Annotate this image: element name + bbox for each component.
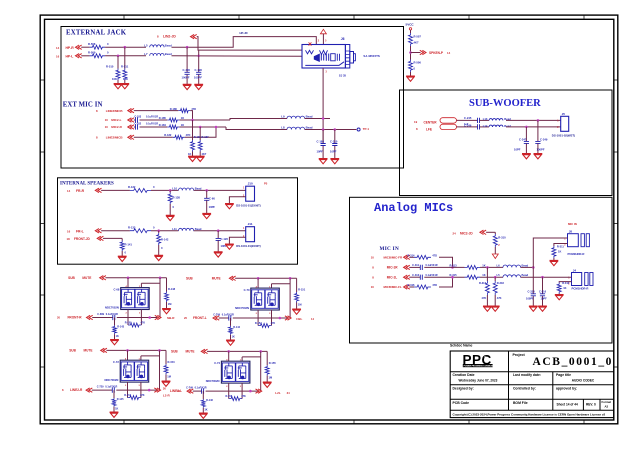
- svg-text:Analog MICs: Analog MICs: [374, 201, 453, 215]
- capacitor C316 10PF: [539, 277, 547, 306]
- resistor R133 0: [101, 225, 155, 232]
- svg-text:Bead: Bead: [306, 115, 313, 119]
- svg-text:1K: 1K: [563, 286, 566, 290]
- svg-text:R-133: R-133: [128, 225, 136, 229]
- svg-text:SJ-43515TS: SJ-43515TS: [363, 54, 380, 58]
- wire gate feeds: [127, 278, 129, 288]
- svg-text:1M: 1M: [167, 374, 171, 378]
- resistor R142 to ground: [157, 231, 169, 255]
- svg-text:L2-R: L2-R: [163, 393, 171, 397]
- svg-text:R-313: R-313: [450, 263, 458, 267]
- ground for R511: [120, 84, 129, 89]
- resistor R-154 47K gate-source: [124, 390, 144, 400]
- resistor R-153 1M: [164, 350, 175, 381]
- connector J5: [552, 112, 575, 138]
- capacitor C60 10PF: [204, 190, 215, 213]
- resistor R313 1K: [424, 263, 485, 269]
- ground R317: [483, 306, 492, 311]
- svg-text:R-184: R-184: [159, 123, 167, 127]
- dual MOSFET Q NDC7002N: [105, 357, 149, 387]
- svg-text:Wednesday June 07, 2023: Wednesday June 07, 2023: [459, 379, 498, 383]
- svg-text:100PF: 100PF: [526, 296, 534, 300]
- resistor R508 0: [88, 42, 109, 49]
- svg-text:C-74: C-74: [214, 361, 220, 365]
- connector J8: [564, 230, 589, 256]
- ground for R510: [114, 84, 123, 89]
- ground input resistor: [226, 340, 235, 345]
- wire row3 to J4: [521, 276, 572, 278]
- svg-text:HP-JD: HP-JD: [240, 31, 248, 35]
- svg-text:R-141: R-141: [125, 243, 133, 247]
- svg-text:R-148: R-148: [168, 287, 176, 291]
- hierarchical label MIC-1R: [372, 265, 410, 269]
- svg-text:C-406: C-406: [183, 68, 191, 72]
- svg-text:SJ 35: SJ 35: [339, 73, 347, 77]
- svg-text:R-314: R-314: [407, 253, 415, 257]
- svg-text:1M: 1M: [168, 302, 172, 306]
- hierarchical label SPKEN-P: [411, 50, 451, 55]
- svg-text:1M: 1M: [298, 302, 302, 306]
- INTERNAL SPEAKERS section box: [58, 178, 298, 264]
- resistor R511 10K to ground: [121, 47, 129, 83]
- svg-text:PCM1HDR-R: PCM1HDR-R: [572, 286, 589, 290]
- junction row1: [124, 46, 127, 49]
- svg-text:R-150: R-150: [125, 321, 132, 324]
- svg-text:1K: 1K: [204, 409, 207, 412]
- svg-text:100PF: 100PF: [182, 75, 190, 79]
- svg-text:L11: L11: [172, 227, 177, 231]
- svg-text:10: 10: [371, 285, 375, 289]
- ground input resistor: [110, 412, 119, 417]
- svg-text:47K: 47K: [271, 322, 276, 325]
- svg-text:1K: 1K: [188, 152, 191, 156]
- svg-text:SUB: SUB: [186, 277, 193, 281]
- svg-text:R-506: R-506: [414, 61, 422, 65]
- ground C247: [522, 154, 531, 159]
- wires MOSFET source/drain to audio row: [127, 382, 129, 390]
- svg-text:100PF: 100PF: [194, 75, 202, 79]
- svg-text:10PF: 10PF: [209, 205, 216, 209]
- svg-text:Designed by:: Designed by:: [453, 386, 474, 390]
- resistor R318 47K to ground: [493, 277, 504, 306]
- power symbol at jack: [320, 29, 326, 44]
- capacitor C311 series: [409, 263, 437, 270]
- capacitor C247 10PF: [514, 127, 529, 153]
- svg-text:SUB: SUB: [171, 350, 178, 354]
- hierarchical label MIC2-JD: [453, 230, 487, 235]
- resistor R-155 1M: [265, 351, 276, 382]
- svg-text:10: 10: [371, 256, 375, 260]
- resistor R-148 1M: [165, 278, 176, 309]
- svg-text:NDC7002N: NDC7002N: [105, 305, 119, 309]
- ground R187: [196, 156, 205, 161]
- svg-text:0.1uF/X1R: 0.1uF/X1R: [146, 123, 158, 126]
- svg-text:20: 20: [184, 316, 188, 320]
- svg-text:HP-R: HP-R: [66, 46, 75, 50]
- svg-text:LIN2-JD: LIN2-JD: [163, 34, 176, 38]
- svg-text:0.1uF/X1R: 0.1uF/X1R: [426, 274, 438, 277]
- output hierarchical label: [256, 389, 291, 395]
- ground at J11 pin2: [225, 237, 246, 249]
- svg-text:MICB/MIC-FR: MICB/MIC-FR: [384, 256, 403, 260]
- ground C210: [330, 159, 339, 164]
- power label 5VCC: [406, 22, 415, 33]
- svg-text:R-156: R-156: [226, 395, 233, 398]
- svg-text:C-60: C-60: [209, 197, 215, 201]
- ground C126: [214, 252, 223, 257]
- wire row B right: [179, 119, 230, 121]
- svg-text:Copyright (C) 2023-2024,Power: Copyright (C) 2023-2024,Power Progress C…: [453, 412, 606, 416]
- hierarchical label MICB/MIC-FR: [371, 255, 410, 259]
- resistor R-150 47K gate-source: [125, 318, 145, 328]
- svg-text:L14: L14: [483, 124, 488, 128]
- svg-text:10PF: 10PF: [317, 150, 324, 154]
- svg-text:approved by:: approved by:: [556, 386, 577, 390]
- sheet pin CENTER: [414, 118, 457, 125]
- svg-text:R-509: R-509: [88, 51, 96, 55]
- wire row B to caps: [305, 118, 330, 120]
- wire row C to test point: [305, 129, 357, 131]
- svg-text:EXTERNAL JACK: EXTERNAL JACK: [66, 30, 127, 37]
- inductor L9 Bead: [281, 115, 312, 119]
- svg-text:1K: 1K: [116, 335, 119, 338]
- svg-text:24: 24: [453, 232, 457, 236]
- svg-text:L6: L6: [497, 263, 501, 267]
- svg-text:16: 16: [67, 230, 71, 234]
- svg-text:0.1uF/X1R: 0.1uF/X1R: [146, 116, 158, 119]
- wire mic row B to beads: [230, 119, 287, 121]
- svg-text:FR-R: FR-R: [76, 189, 85, 193]
- svg-text:1K: 1K: [482, 263, 485, 267]
- svg-text:R-132: R-132: [128, 185, 136, 189]
- wire HP-L to jack: [105, 55, 146, 57]
- hierarchical label MIC-1L: [372, 275, 410, 279]
- svg-text:R-146: R-146: [206, 399, 213, 402]
- svg-text:AUDIO CODEC: AUDIO CODEC: [572, 379, 595, 383]
- resistor R-145 1K to ground: [112, 390, 124, 412]
- svg-text:FRONT-JD: FRONT-JD: [74, 237, 91, 241]
- svg-text:0.1uF/X1R: 0.1uF/X1R: [222, 313, 234, 316]
- svg-text:30: 30: [163, 387, 167, 391]
- wire row3 to bead: [480, 276, 503, 278]
- ground mute resistor: [263, 382, 272, 387]
- svg-text:1K: 1K: [181, 116, 184, 120]
- svg-text:Bead: Bead: [522, 273, 529, 277]
- ground input resistor: [110, 340, 119, 345]
- capacitor C184 10PF: [317, 130, 326, 159]
- svg-text:LINE2/MICB: LINE2/MICB: [106, 136, 123, 140]
- svg-text:INTERNAL SPEAKERS: INTERNAL SPEAKERS: [60, 182, 114, 187]
- svg-text:R-317: R-317: [479, 281, 487, 285]
- EXTERNAL JACK / EXT MIC IN section box: [61, 27, 404, 169]
- sheet pin 16 FR-L: [67, 229, 102, 234]
- output hierarchical label: [155, 315, 175, 320]
- resistor R-143 1K to ground: [113, 318, 125, 340]
- svg-text:MUTE: MUTE: [186, 350, 195, 354]
- wire row2 to bead: [480, 266, 503, 268]
- logo PPC: [463, 353, 497, 368]
- wire HP-R rises over to jack top pin: [105, 46, 146, 48]
- svg-text:R-152: R-152: [255, 322, 262, 325]
- svg-text:ACB_0001_0: ACB_0001_0: [533, 356, 614, 368]
- wire gate feeds: [228, 351, 230, 361]
- svg-text:C-311: C-311: [412, 263, 419, 267]
- svg-text:LFE: LFE: [426, 127, 432, 131]
- svg-text:Controlled by:: Controlled by:: [513, 386, 536, 390]
- resistor R317 47K to ground: [479, 267, 489, 305]
- resistor R510 10K to ground: [106, 56, 120, 83]
- ground C184: [319, 159, 328, 164]
- svg-text:L13: L13: [483, 117, 488, 121]
- resistor R138 to ground: [168, 190, 180, 215]
- svg-text:C-183: C-183: [134, 116, 141, 119]
- svg-text:R-151: R-151: [298, 288, 306, 292]
- svg-text:R-310: R-310: [498, 236, 506, 240]
- svg-text:C-72: C-72: [113, 360, 119, 364]
- svg-text:NDC7002N: NDC7002N: [105, 378, 119, 382]
- svg-text:10: 10: [105, 125, 109, 129]
- resistor R312 1K at J4: [557, 281, 571, 295]
- ground mute resistor: [162, 309, 171, 314]
- svg-text:R-316: R-316: [407, 283, 415, 287]
- svg-text:47K: 47K: [497, 296, 502, 300]
- svg-text:Sheet 14 of 44: Sheet 14 of 44: [557, 402, 578, 406]
- svg-text:C-196: C-196: [195, 68, 203, 72]
- svg-text:PCM2HDR-R: PCM2HDR-R: [568, 252, 585, 256]
- hierarchical label LINE2/MICB row A: [96, 108, 134, 112]
- svg-text:20: 20: [57, 316, 61, 320]
- ground R318: [491, 306, 500, 311]
- dual MOSFET Q NDC7002N: [235, 285, 279, 315]
- ground for C196: [194, 84, 203, 89]
- sheet pin LFE: [416, 124, 457, 131]
- wire CENTER to J5: [506, 119, 561, 121]
- svg-text:C-182: C-182: [134, 123, 141, 126]
- hierarchical label MIC2-R: [105, 125, 134, 129]
- svg-text:R-186: R-186: [170, 107, 178, 111]
- svg-text:LINE2-R: LINE2-R: [70, 388, 83, 392]
- svg-text:18: 18: [67, 237, 71, 241]
- sheet pin LINE2-R: [62, 388, 92, 392]
- svg-text:L8: L8: [281, 126, 285, 130]
- svg-text:R-185: R-185: [159, 116, 167, 120]
- output hierarchical label: [285, 316, 315, 321]
- mute label SUB MUTE: [68, 276, 106, 280]
- svg-text:FBL: FBL: [296, 317, 302, 321]
- ground R188: [188, 156, 197, 161]
- svg-text:C-249: C-249: [540, 137, 548, 141]
- svg-text:R-144: R-144: [233, 326, 240, 329]
- ground input resistor: [199, 413, 208, 418]
- connector J4: [568, 268, 593, 290]
- wires MOSFET source/drain to audio row: [228, 383, 230, 391]
- inductor L7 Bead: [144, 52, 172, 56]
- svg-text:FRONT-R: FRONT-R: [68, 316, 83, 320]
- resistor R188 1K to ground: [188, 120, 201, 156]
- svg-text:C-709: C-709: [213, 313, 220, 316]
- resistor R311 1K at J8: [552, 244, 568, 261]
- svg-text:0.1uF/X1R: 0.1uF/X1R: [106, 313, 118, 316]
- resistor R314 47D: [407, 253, 437, 259]
- ground C60: [202, 213, 211, 218]
- svg-text:0.1uF/X1R: 0.1uF/X1R: [195, 387, 207, 390]
- wires MOSFET source/drain to audio row: [257, 310, 259, 318]
- svg-text:C-70: C-70: [244, 288, 250, 292]
- svg-text:J10: J10: [248, 182, 253, 186]
- inductor L11 Bead: [172, 227, 201, 231]
- svg-text:47D: 47D: [432, 253, 437, 257]
- capacitor C182 0.1uF series row C: [134, 123, 158, 130]
- ground at J10 pin2: [225, 197, 246, 209]
- resistor R185 1K row B: [140, 116, 185, 122]
- mute label SUB MUTE: [171, 349, 208, 353]
- svg-text:C-247: C-247: [519, 137, 527, 141]
- hierarchical label MICB/MIC-FL: [371, 285, 410, 289]
- ground R312: [555, 295, 564, 300]
- svg-text:DS-1001-01(2X06T): DS-1001-01(2X06T): [236, 203, 260, 207]
- inductor L5 Bead: [144, 43, 172, 47]
- svg-text:MUTE: MUTE: [82, 276, 91, 280]
- resistor R509 0: [88, 51, 109, 58]
- inductor L5 Bead: [497, 273, 529, 277]
- inductor L6 Bead: [497, 263, 529, 267]
- svg-text:C-749: C-749: [186, 387, 193, 390]
- svg-text:PCB Code: PCB Code: [453, 401, 470, 405]
- svg-text:BOM File: BOM File: [513, 401, 528, 405]
- svg-text:MUTE: MUTE: [84, 349, 93, 353]
- svg-text:C-68: C-68: [114, 288, 120, 292]
- svg-text:C-729: C-729: [97, 386, 104, 389]
- svg-text:MIC IN: MIC IN: [568, 222, 577, 226]
- svg-text:4K7: 4K7: [202, 152, 207, 156]
- svg-text:Schdoc Name: Schdoc Name: [450, 343, 472, 347]
- svg-text:SPKEN-P: SPKEN-P: [429, 51, 443, 55]
- svg-text:MIC-1R: MIC-1R: [387, 266, 399, 270]
- resistor R187 4K7 to ground: [198, 127, 209, 156]
- wire row4 joins row3: [439, 277, 453, 287]
- svg-text:Project: Project: [513, 353, 526, 357]
- wire FRONT-JD: [103, 237, 122, 239]
- capacitor C-749 0.1uF series: [186, 387, 258, 394]
- svg-text:47K: 47K: [482, 296, 487, 300]
- wire jack sleeve down to mic rows: [322, 68, 324, 144]
- svg-text:L5: L5: [497, 273, 501, 277]
- sheet pin 14 FR-R: [67, 188, 102, 193]
- svg-text:MIC2-JD: MIC2-JD: [460, 232, 473, 236]
- wires MOSFET source/drain to audio row: [127, 310, 129, 318]
- resistor R-151 1M: [295, 278, 306, 309]
- capacitor C249 100PF: [535, 120, 548, 153]
- svg-text:R-155: R-155: [269, 361, 277, 365]
- svg-text:10PF: 10PF: [330, 150, 337, 154]
- ground mute resistor: [162, 381, 171, 386]
- svg-text:R-154: R-154: [124, 394, 131, 397]
- svg-text:47K: 47K: [241, 395, 246, 398]
- test point TP1: [357, 127, 369, 131]
- svg-text:L7: L7: [144, 52, 148, 56]
- svg-text:EXT MIC IN: EXT MIC IN: [63, 101, 103, 108]
- hierarchical label LIN2-JD: [157, 34, 197, 39]
- svg-text:FRONT-L: FRONT-L: [193, 316, 207, 320]
- resistor R141 to ground: [120, 238, 132, 256]
- svg-text:R-311: R-311: [557, 245, 564, 249]
- capacitor C406 100PF: [182, 46, 191, 84]
- svg-text:R-153: R-153: [168, 360, 176, 364]
- svg-text:47D: 47D: [432, 283, 437, 287]
- svg-text:SUB-WOOFER: SUB-WOOFER: [469, 98, 541, 109]
- svg-text:14: 14: [67, 189, 71, 193]
- svg-text:34: 34: [287, 391, 291, 395]
- svg-text:L10: L10: [172, 187, 177, 191]
- resistor R-144 1K to ground: [229, 318, 241, 340]
- svg-text:SB-R: SB-R: [167, 316, 175, 320]
- title block grid: [450, 351, 614, 418]
- capacitor C183 0.1uF series row B: [134, 116, 158, 123]
- resistor R507 4K7: [409, 33, 422, 60]
- svg-text:FR-L: FR-L: [76, 230, 84, 234]
- capacitor C-709 0.1uF series: [213, 313, 287, 320]
- connector J11: [236, 222, 260, 248]
- svg-text:POWER PROGRESS COMMUNITY: POWER PROGRESS COMMUNITY: [464, 366, 497, 368]
- ground C316: [538, 306, 547, 311]
- wire row2 to J11: [151, 230, 179, 232]
- wire gate feeds: [257, 278, 259, 288]
- svg-text:10K: 10K: [123, 77, 128, 81]
- resistor R506 0: [409, 60, 422, 76]
- svg-text:R-143: R-143: [117, 326, 124, 329]
- svg-text:Bead: Bead: [522, 263, 529, 267]
- svg-text:J6: J6: [341, 37, 345, 41]
- svg-text:C-312: C-312: [412, 273, 420, 277]
- svg-text:MIC-1L: MIC-1L: [387, 275, 398, 279]
- ground R138: [166, 215, 175, 220]
- svg-text:DS-1001-01(2X06T): DS-1001-01(2X06T): [236, 244, 260, 248]
- svg-text:L5: L5: [144, 43, 148, 47]
- inductor L14 Bead: [480, 124, 512, 128]
- svg-text:10PF: 10PF: [541, 296, 548, 300]
- capacitor C-689 0.1uF series: [92, 313, 157, 320]
- svg-text:C-316: C-316: [539, 290, 547, 294]
- connector J10: [236, 182, 260, 208]
- junction row2: [117, 55, 120, 58]
- wire mute top: [105, 277, 166, 279]
- wire row1 to J10: [151, 189, 179, 191]
- wire row1 joins row2: [439, 257, 453, 267]
- svg-text:J11: J11: [248, 222, 253, 226]
- svg-text:C-210: C-210: [330, 140, 338, 144]
- svg-text:LINE2/MICB: LINE2/MICB: [106, 109, 123, 113]
- svg-text:5VCC: 5VCC: [406, 22, 415, 26]
- resistor R315 1K: [424, 273, 485, 279]
- wire HP-L row: [81, 55, 89, 57]
- capacitor C126 10PF: [216, 231, 229, 252]
- wire HP-R row: [81, 46, 89, 48]
- svg-text:10PF: 10PF: [514, 148, 521, 152]
- svg-text:19: 19: [414, 120, 418, 124]
- svg-text:Bead: Bead: [165, 52, 172, 56]
- svg-text:C-184: C-184: [317, 140, 325, 144]
- svg-text:10K: 10K: [112, 77, 117, 81]
- svg-text:Bead: Bead: [195, 187, 202, 191]
- svg-text:A3: A3: [605, 404, 609, 408]
- svg-text:R-187: R-187: [202, 135, 210, 139]
- svg-text:47K: 47K: [141, 321, 146, 324]
- dual MOSFET Q NDC7002N: [206, 358, 250, 388]
- svg-text:SUB: SUB: [69, 349, 76, 353]
- resistor R182 47D row D: [134, 133, 191, 139]
- svg-text:R-312: R-312: [562, 281, 570, 285]
- inductor L8 Bead: [226, 127, 287, 130]
